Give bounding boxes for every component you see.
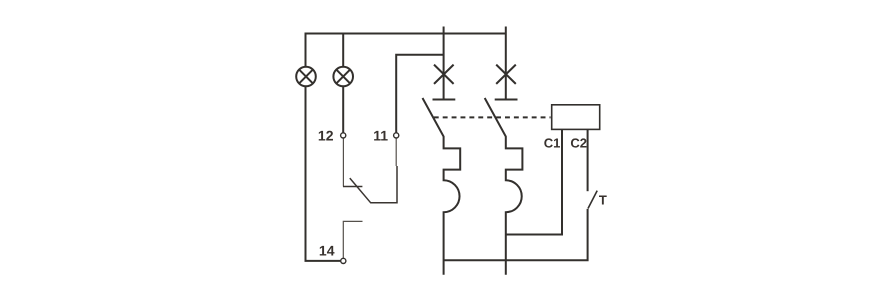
svg-text:12: 12 bbox=[318, 128, 334, 144]
svg-text:T: T bbox=[599, 192, 607, 207]
svg-text:11: 11 bbox=[373, 128, 388, 144]
svg-text:14: 14 bbox=[319, 242, 335, 258]
svg-text:C2: C2 bbox=[570, 135, 587, 150]
svg-text:C1: C1 bbox=[544, 135, 561, 150]
